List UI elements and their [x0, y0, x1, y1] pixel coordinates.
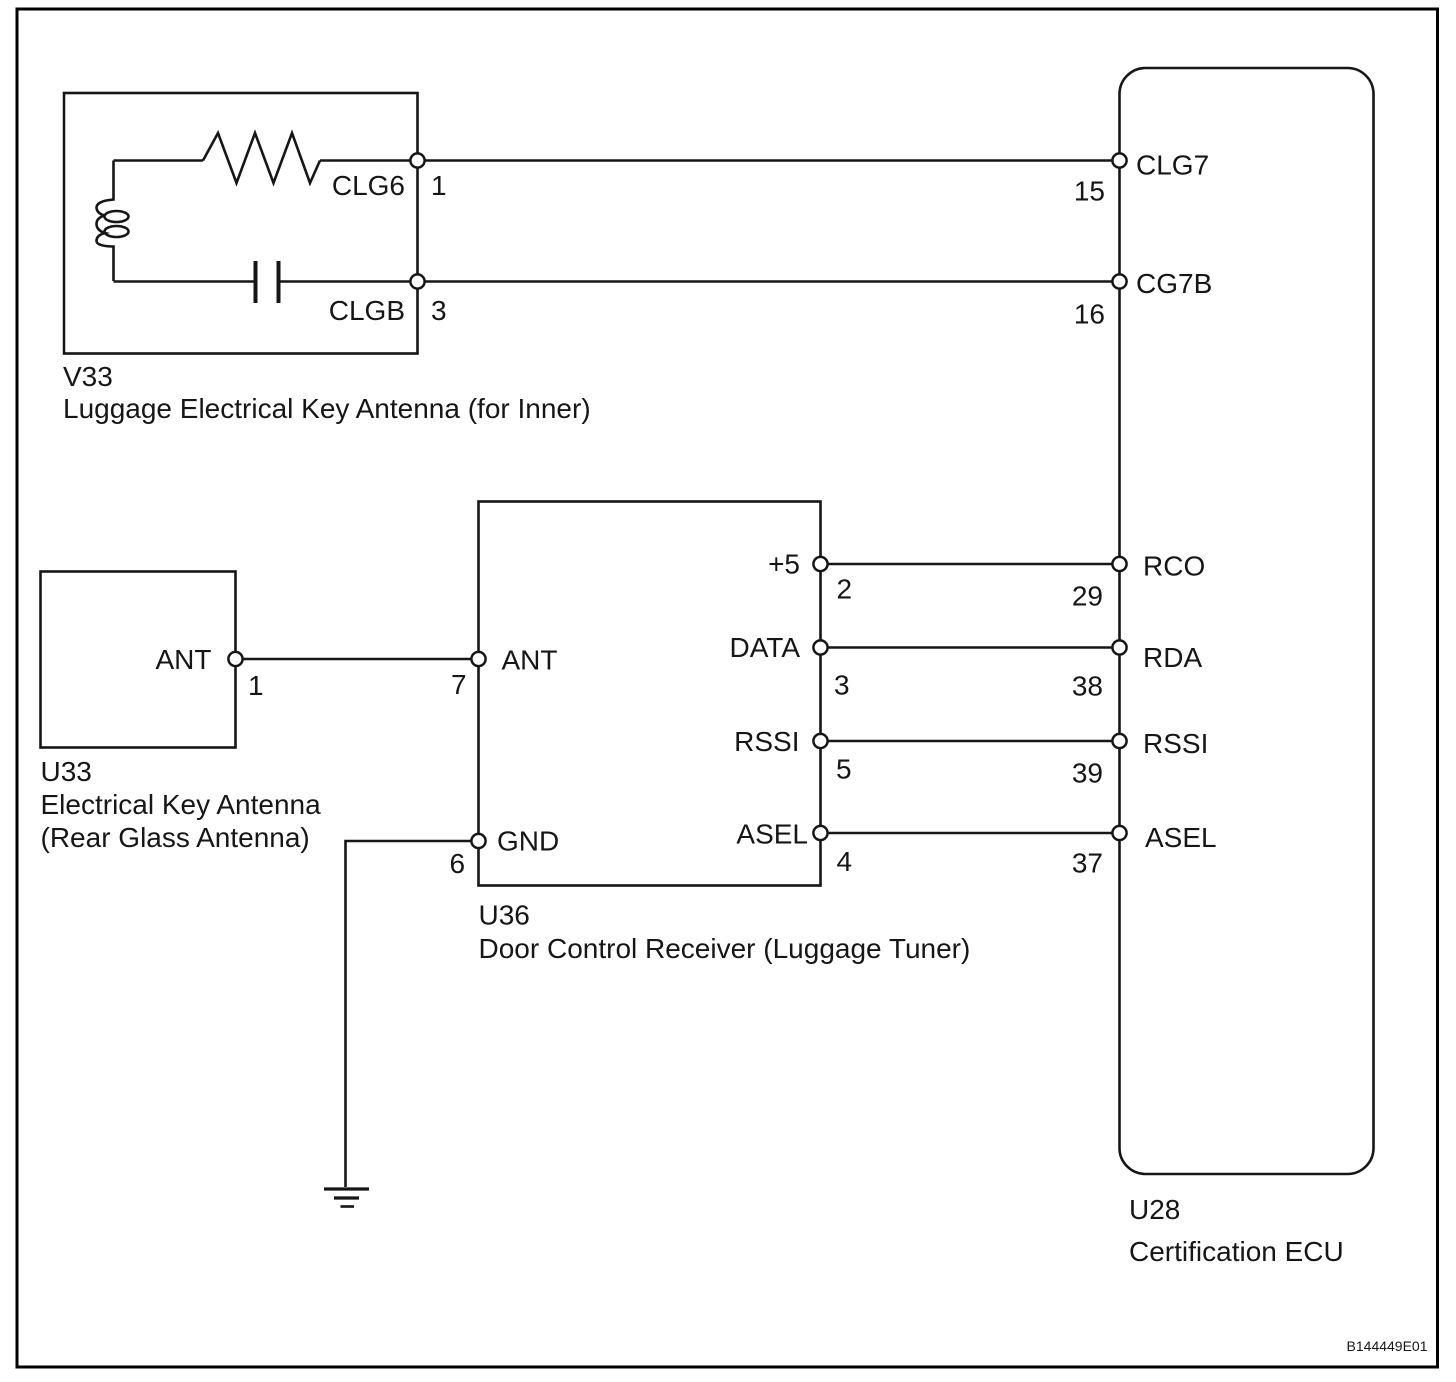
pin 15 CLG7: [1112, 153, 1126, 167]
wire top inside V33: [114, 159, 204, 162]
pin 16 CG7B: [1112, 274, 1126, 288]
svg-text:15: 15: [1074, 176, 1105, 207]
inductor coil: [97, 161, 114, 282]
svg-text:Door Control Receiver (Luggage: Door Control Receiver (Luggage Tuner): [479, 933, 971, 964]
svg-text:U33: U33: [41, 756, 92, 787]
svg-text:RDA: RDA: [1143, 642, 1202, 673]
svg-text:ASEL: ASEL: [736, 819, 808, 850]
svg-text:ANT: ANT: [502, 645, 558, 676]
svg-text:38: 38: [1072, 671, 1103, 702]
wire DATA to RDA: [821, 646, 1120, 649]
svg-text:CLG7: CLG7: [1136, 150, 1209, 181]
antenna unit box V33: [64, 93, 418, 354]
wire bottom inside V33: [114, 280, 256, 283]
wire capacitor to pin CLGB: [281, 280, 418, 283]
antenna box U33: [41, 572, 236, 748]
ECU box U28: [1120, 68, 1374, 1174]
svg-text:6: 6: [450, 848, 466, 879]
pin 38 RDA: [1112, 640, 1126, 654]
pin 2 +5: [813, 557, 827, 571]
svg-text:Certification ECU: Certification ECU: [1129, 1236, 1344, 1267]
ground: [324, 1189, 369, 1207]
svg-text:RSSI: RSSI: [734, 726, 799, 757]
svg-text:7: 7: [451, 669, 467, 700]
pin circles: [228, 153, 1126, 848]
svg-text:U28: U28: [1129, 1194, 1180, 1225]
svg-text:4: 4: [837, 846, 853, 877]
receiver box U36: [479, 502, 821, 886]
wire resistor to pin CLG6: [320, 159, 418, 162]
svg-text:5: 5: [836, 754, 852, 785]
svg-text:29: 29: [1072, 581, 1103, 612]
wire CLGB to CG7B: [418, 280, 1120, 283]
pin 1 ANT U33: [228, 652, 242, 666]
svg-text:3: 3: [834, 670, 850, 701]
pin 5 RSSI: [813, 734, 827, 748]
svg-text:37: 37: [1072, 848, 1103, 879]
pin 3 DATA: [813, 640, 827, 654]
svg-text:3: 3: [431, 295, 447, 326]
svg-text:CG7B: CG7B: [1136, 268, 1212, 299]
svg-text:(Rear Glass Antenna): (Rear Glass Antenna): [41, 822, 310, 853]
svg-text:Electrical Key Antenna: Electrical Key Antenna: [41, 789, 322, 820]
svg-text:DATA: DATA: [729, 632, 800, 663]
wire ASEL to ASEL: [821, 832, 1120, 835]
svg-text:CLG6: CLG6: [332, 170, 405, 201]
svg-text:RSSI: RSSI: [1143, 728, 1208, 759]
pin 39 RSSI: [1112, 734, 1126, 748]
svg-text:Luggage Electrical Key Antenna: Luggage Electrical Key Antenna (for Inne…: [63, 393, 591, 424]
svg-text:B144449E01: B144449E01: [1347, 1338, 1428, 1354]
wire GND: [346, 841, 479, 1187]
svg-text:CLGB: CLGB: [329, 295, 405, 326]
pin 1 CLG6: [410, 153, 424, 167]
svg-text:GND: GND: [497, 826, 559, 857]
resistor: [203, 133, 320, 183]
svg-text:RCO: RCO: [1143, 551, 1205, 582]
svg-text:ASEL: ASEL: [1145, 822, 1217, 853]
svg-text:1: 1: [248, 670, 264, 701]
wire +5 to RCO: [821, 563, 1120, 566]
svg-text:+5: +5: [768, 549, 800, 580]
capacitor: [254, 261, 258, 303]
wire RSSI to RSSI: [821, 740, 1120, 743]
svg-text:39: 39: [1072, 758, 1103, 789]
svg-text:ANT: ANT: [156, 644, 212, 675]
svg-text:U36: U36: [479, 900, 530, 931]
wire U33 ANT to U36 ANT: [236, 658, 479, 661]
wire CLG6 to CLG7: [418, 159, 1120, 162]
pin 7 ANT U36: [471, 652, 485, 666]
svg-text:16: 16: [1074, 299, 1105, 330]
pin 6 GND U36: [471, 834, 485, 848]
pin 3 CLGB: [410, 274, 424, 288]
pin 4 ASEL: [813, 826, 827, 840]
svg-text:1: 1: [431, 170, 447, 201]
svg-text:V33: V33: [63, 361, 113, 392]
pin 29 RCO: [1112, 557, 1126, 571]
pin 37 ASEL: [1112, 826, 1126, 840]
svg-text:2: 2: [837, 574, 853, 605]
